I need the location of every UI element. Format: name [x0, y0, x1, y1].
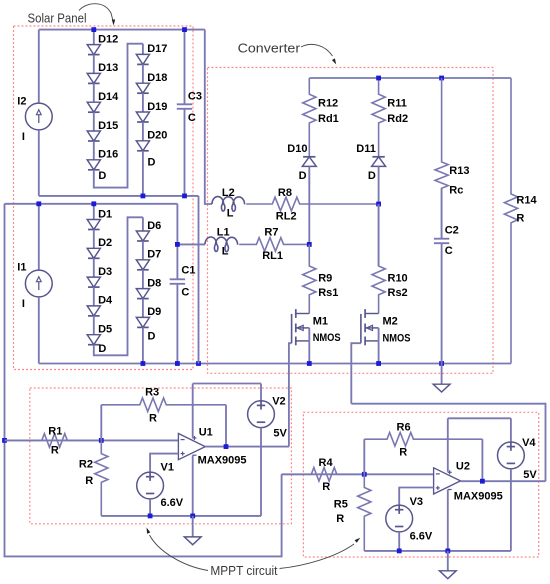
svg-text:D: D — [98, 170, 106, 182]
svg-text:R: R — [322, 481, 330, 493]
diode D12 — [87, 45, 100, 55]
svg-text:R5: R5 — [334, 499, 348, 511]
diode D6 — [136, 231, 149, 241]
svg-text:6.6V: 6.6V — [161, 497, 184, 509]
svg-text:R: R — [149, 413, 157, 425]
svg-text:M2: M2 — [383, 316, 398, 328]
svg-text:D3: D3 — [98, 266, 112, 278]
wire: D5 bottom jog to D6 top — [94, 217, 143, 355]
svg-text:Rs1: Rs1 — [318, 287, 338, 299]
resistor R6 — [364, 432, 482, 446]
wire — [93, 55, 95, 74]
svg-text:D5: D5 — [98, 324, 112, 336]
svg-text:R7: R7 — [264, 226, 278, 238]
svg-text:I2: I2 — [17, 95, 26, 107]
junction panel1 bottom / D20 — [141, 194, 146, 199]
wire: U1 V+ pin — [192, 384, 194, 438]
diode D4 — [87, 306, 100, 316]
capacitor C1 — [176, 244, 178, 279]
junction top rail / R13 — [439, 76, 444, 81]
wire — [142, 270, 144, 289]
junction bottom rail / D9 — [141, 361, 146, 366]
diode D7 — [136, 260, 149, 270]
svg-text:L: L — [222, 246, 229, 258]
svg-text:D15: D15 — [98, 120, 118, 132]
svg-text:I1: I1 — [17, 262, 26, 274]
svg-text:5V: 5V — [273, 428, 287, 440]
annotation box: MPPT circuit 2 (red dashed) — [303, 412, 538, 557]
svg-text:MAX9095: MAX9095 — [454, 490, 503, 502]
svg-text:D: D — [299, 170, 307, 182]
svg-text:L: L — [227, 208, 234, 220]
wire: panel1 bottom rail — [39, 195, 199, 197]
svg-text:D: D — [98, 343, 106, 355]
wire: M1 drain to R9 — [308, 313, 310, 315]
svg-text:D: D — [148, 157, 156, 169]
svg-text:V3: V3 — [410, 496, 423, 508]
junction bottom rail / V1 — [148, 514, 153, 519]
svg-text:D: D — [148, 331, 156, 343]
resistor R12 (Rd1) — [303, 78, 316, 157]
wire: D9 to bottom rail — [142, 327, 144, 363]
resistor R13 (Rc) — [435, 78, 448, 239]
svg-text:Solar Panel: Solar Panel — [28, 10, 87, 25]
annotation arrow: MPPT circuit right — [280, 544, 355, 569]
wire: U2 output row — [461, 480, 546, 482]
annotation arrow: Converter — [301, 44, 333, 56]
annotation box: Solar Panel (red dashed) — [14, 26, 194, 370]
wire: MPPT1 bottom rail — [101, 515, 261, 517]
wire: R1 input row — [5, 439, 179, 441]
resistor R7 — [239, 238, 309, 252]
resistor R10 (Rs2) — [372, 204, 385, 314]
svg-text:D2: D2 — [98, 237, 112, 249]
diode D9 — [136, 317, 149, 327]
node N2 junction — [376, 202, 381, 207]
wire — [93, 258, 95, 277]
junction output/feedback — [224, 444, 229, 449]
junction L1 row / C1 / panel2 feed — [175, 242, 180, 247]
wire: panel1- return feed — [198, 196, 200, 364]
diode D14 — [87, 102, 100, 112]
svg-text:L2: L2 — [222, 187, 235, 199]
svg-text:R: R — [336, 513, 344, 525]
diode D13 — [87, 73, 100, 83]
wire: MPPT2 bottom rail — [364, 550, 511, 552]
wire: M2 source to rail — [378, 341, 380, 364]
wire: MPPT1 V+ rail — [193, 383, 261, 385]
wire — [93, 230, 95, 249]
svg-text:R: R — [516, 212, 524, 224]
diode D16 — [87, 160, 100, 170]
svg-text:D7: D7 — [147, 249, 161, 261]
annotation arrow: MPPT circuit left — [150, 535, 209, 571]
node: MPPT input junction — [2, 438, 7, 443]
svg-text:R6: R6 — [397, 421, 411, 433]
junction R1/R2/R3 — [99, 438, 104, 443]
svg-text:R9: R9 — [318, 272, 332, 284]
transistor M1 (NMOS) — [291, 314, 293, 343]
svg-text:Rc: Rc — [449, 185, 463, 197]
svg-text:RL1: RL1 — [262, 250, 283, 262]
svg-text:6.6V: 6.6V — [410, 531, 433, 543]
junction bottom rail / panel1 return — [196, 361, 201, 366]
annotation arrow: Solar Panel — [79, 4, 113, 20]
svg-text:D17: D17 — [147, 43, 167, 55]
svg-text:M1: M1 — [313, 316, 328, 328]
wire: R4 input row — [282, 473, 434, 475]
svg-text:D4: D4 — [98, 295, 113, 307]
diode D5 — [87, 335, 100, 345]
wire: panel1+ feed to L2 — [205, 30, 212, 204]
resistor R2 — [95, 440, 108, 516]
resistor R9 (Rs1) — [303, 244, 316, 313]
wire: U2 V- pin — [447, 490, 449, 551]
wire: L1 row — [177, 243, 205, 245]
svg-text:L1: L1 — [217, 226, 230, 238]
junction source rail / M2 — [376, 361, 381, 366]
svg-text:D19: D19 — [147, 101, 167, 113]
svg-text:MAX9095: MAX9095 — [198, 455, 247, 467]
svg-text:D18: D18 — [147, 72, 167, 84]
svg-text:5V: 5V — [523, 469, 537, 481]
diode D18 — [136, 83, 149, 93]
wire — [142, 93, 144, 112]
svg-text:R3: R3 — [145, 386, 159, 398]
svg-text:C2: C2 — [445, 224, 459, 236]
wire: M2 gate lead — [351, 343, 361, 404]
transistor M2 (NMOS) — [360, 314, 362, 343]
wire: D12 string top lead — [93, 30, 95, 45]
svg-text:D14: D14 — [98, 91, 119, 103]
resistor R14 (R) — [504, 78, 517, 364]
wire: M1 source to rail — [308, 341, 310, 364]
svg-text:D: D — [368, 170, 376, 182]
svg-text:D13: D13 — [98, 62, 118, 74]
wire: bottom/source rail — [39, 363, 511, 365]
junction panel2 rail / D1 — [91, 201, 96, 206]
capacitor C3 — [184, 30, 186, 105]
diode D3 — [87, 277, 100, 287]
wire: M1 gate lead — [289, 343, 292, 446]
junction bottom rail / V3 — [397, 549, 402, 554]
wire: MPPT2 V+ rail — [448, 417, 511, 419]
junction bottom rail / C1 — [175, 361, 180, 366]
svg-text:R8: R8 — [278, 187, 292, 199]
svg-text:U1: U1 — [199, 426, 213, 438]
svg-text:R1: R1 — [48, 425, 62, 437]
svg-text:C: C — [445, 245, 453, 257]
svg-text:NMOS: NMOS — [383, 332, 411, 344]
wire: panel1 top rail — [39, 29, 205, 31]
voltage source V1 (6.6V) — [150, 454, 178, 472]
svg-text:Rs2: Rs2 — [388, 287, 408, 299]
voltage source V3 (6.6V) — [399, 488, 433, 506]
svg-text:R: R — [51, 445, 59, 457]
current source I1 — [38, 204, 40, 270]
diode D20 — [136, 141, 149, 151]
wire: R3 to output — [225, 405, 227, 447]
op-amp U1 (MAX9095) — [178, 434, 205, 460]
wire — [93, 112, 95, 131]
svg-text:D9: D9 — [147, 306, 161, 318]
wire — [142, 241, 144, 260]
svg-text:Rd1: Rd1 — [318, 113, 339, 125]
junction bottom rail / U1 V- — [190, 514, 195, 519]
svg-text:RL2: RL2 — [276, 210, 297, 222]
wire: panel2 rail corner to L1 node — [176, 204, 178, 245]
wire: U1 output row — [205, 446, 289, 448]
svg-text:U2: U2 — [456, 461, 470, 473]
resistor R3 — [101, 398, 226, 412]
diode D19 — [136, 112, 149, 122]
wire: D17 string top lead — [142, 44, 144, 55]
junction top rail / R11 — [376, 76, 381, 81]
ground (MPPT2) — [447, 551, 449, 571]
resistor R4 — [282, 468, 365, 482]
svg-text:Converter: Converter — [238, 40, 301, 55]
svg-text:C: C — [188, 112, 196, 124]
svg-text:NMOS: NMOS — [313, 332, 341, 344]
svg-text:Rd2: Rd2 — [387, 113, 408, 125]
junction panel2 rail / I1 — [36, 201, 41, 206]
wire — [142, 299, 144, 318]
wire — [93, 141, 95, 160]
svg-text:R12: R12 — [318, 98, 338, 110]
svg-text:V1: V1 — [161, 462, 174, 474]
wire: R3 feedback left leg — [100, 405, 102, 441]
svg-text:D8: D8 — [147, 277, 161, 289]
wire — [93, 316, 95, 335]
wire — [142, 64, 144, 83]
diode D8 — [136, 289, 149, 299]
svg-text:R14: R14 — [516, 195, 537, 207]
svg-text:D1: D1 — [98, 208, 112, 220]
svg-text:R11: R11 — [387, 98, 407, 110]
wire: U2 output to M2 gate rail — [351, 404, 545, 482]
svg-text:I: I — [22, 131, 25, 143]
svg-text:D12: D12 — [98, 33, 118, 45]
wire: R6 feedback left leg — [363, 439, 365, 474]
svg-text:R: R — [399, 447, 407, 459]
svg-text:C: C — [181, 286, 189, 298]
resistor R8 — [246, 197, 378, 211]
svg-text:R13: R13 — [449, 165, 469, 177]
svg-text:C3: C3 — [188, 90, 202, 102]
wire: D6 string top lead — [142, 217, 144, 231]
inductor L2 — [212, 197, 245, 212]
wire: D1 string top lead — [93, 204, 95, 220]
svg-text:C1: C1 — [181, 264, 195, 276]
op-amp U2 (MAX9095) — [434, 468, 461, 494]
diode D15 — [87, 131, 100, 141]
diode D17 — [136, 54, 149, 64]
wire — [142, 122, 144, 141]
ground (MPPT1) — [192, 516, 194, 537]
annotation box: MPPT circuit 1 (red dashed) — [30, 388, 292, 524]
svg-text:R10: R10 — [388, 272, 408, 284]
wire: U2 V+ pin — [447, 418, 449, 472]
junction R4/R5/R6 — [362, 472, 367, 477]
junction panel1 bottom / C3 bottom — [182, 194, 187, 199]
ground (converter) — [441, 364, 443, 385]
svg-text:D16: D16 — [98, 149, 118, 161]
capacitor C2 — [441, 188, 443, 238]
svg-text:R: R — [85, 475, 93, 487]
junction bottom rail / U2 V- — [445, 549, 450, 554]
svg-text:D6: D6 — [147, 220, 161, 232]
junction panel1 rail / C3 top — [182, 27, 187, 32]
node N1 junction — [307, 242, 312, 247]
wire: panel2+ down-feed to L1 row — [5, 204, 282, 557]
wire — [93, 83, 95, 102]
svg-text:D20: D20 — [147, 130, 167, 142]
junction source rail / M1 — [307, 361, 312, 366]
svg-text:I: I — [22, 298, 25, 310]
resistor R5 — [358, 474, 371, 551]
wire: R6 to output — [481, 439, 483, 481]
diode D1 — [87, 220, 100, 230]
resistor R11 (Rd2) — [372, 78, 385, 157]
svg-text:D11: D11 — [356, 143, 376, 155]
svg-text:V2: V2 — [272, 396, 285, 408]
wire: D16 bottom jog to D17 top — [94, 44, 143, 188]
svg-text:D10: D10 — [287, 143, 307, 155]
wire — [93, 287, 95, 306]
svg-text:R2: R2 — [79, 459, 93, 471]
junction source rail / ground — [439, 361, 444, 366]
svg-text:V4: V4 — [522, 437, 536, 449]
diode D11 — [372, 156, 384, 158]
wire: panel2 top rail — [5, 203, 178, 205]
wire: D20 to panel1 bottom rail — [142, 151, 144, 196]
inductor L1 — [205, 237, 238, 252]
junction output/feedback (U2) — [480, 479, 485, 484]
svg-text:R4: R4 — [319, 457, 334, 469]
diode D2 — [87, 248, 100, 258]
wire: U1 V- pin — [192, 456, 194, 516]
wire: converter top rail — [309, 77, 511, 79]
svg-text:MPPT circuit: MPPT circuit — [210, 563, 277, 578]
voltage source V2 (5V) — [260, 384, 262, 401]
voltage source V4 (5V) — [510, 418, 512, 442]
current source I2 — [38, 30, 40, 104]
annotation box: Converter (red dashed) — [208, 68, 494, 374]
junction panel1 rail / D12 — [91, 27, 96, 32]
resistor R1 — [5, 434, 102, 448]
diode D10 — [303, 156, 315, 158]
wire: N2 to R10 — [378, 204, 380, 266]
